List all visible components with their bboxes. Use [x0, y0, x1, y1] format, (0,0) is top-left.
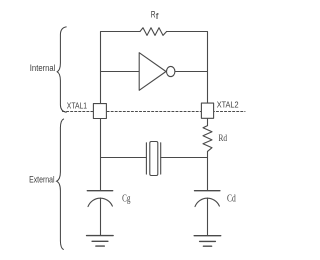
svg-text:Rd: Rd: [219, 133, 228, 144]
ground (under Cg): [87, 235, 114, 237]
wire: left vertical rail + top rail to resistor: [101, 32, 141, 104]
pin XTAL2 (square pad): [201, 103, 213, 118]
wire: Rd down through node to Cd: [207, 151, 209, 190]
capacitor Cg curved plate: [88, 198, 112, 206]
wire: inverter output: [175, 71, 207, 73]
wire: Cd to ground: [207, 198, 209, 235]
capacitor Cd curved plate: [195, 198, 219, 206]
op-amp U1 (inverter triangle): [139, 53, 166, 91]
ground (under Cd): [194, 235, 221, 237]
resistor Rd: [203, 126, 212, 152]
wire: inverter input: [101, 71, 140, 73]
svg-text:Cg: Cg: [122, 192, 131, 204]
capacitor Cg top plate: [87, 190, 112, 192]
wire: XTAL1 down to Cg: [100, 119, 102, 191]
brace (External side): [57, 119, 64, 249]
wire: top rail right segment + right vertical rail: [167, 32, 208, 104]
svg-text:Internal: Internal: [30, 63, 56, 73]
pin XTAL1 (square pad): [93, 104, 106, 119]
svg-text:XTAL2: XTAL2: [217, 101, 239, 110]
wire: Cg to ground: [100, 198, 102, 235]
svg-text:Cd: Cd: [227, 193, 236, 205]
crystal Y1 right plate: [160, 143, 162, 174]
svg-text:f: f: [156, 12, 160, 21]
svg-text:External: External: [29, 174, 54, 184]
resistor Rf: [140, 28, 167, 36]
crystal Y1 body: [150, 142, 158, 176]
wire: XTAL2 down to resistor Rd: [207, 119, 209, 126]
wire: crystal branch left: [101, 157, 147, 159]
crystal Y1 left plate: [145, 143, 147, 174]
wire: dashed internal/external boundary: [63, 111, 246, 113]
wire: crystal branch right: [161, 157, 208, 159]
inverter output bubble: [167, 66, 175, 76]
capacitor Cd top plate: [195, 190, 220, 192]
brace (Internal side): [57, 27, 66, 112]
svg-text:XTAL1: XTAL1: [67, 101, 88, 110]
